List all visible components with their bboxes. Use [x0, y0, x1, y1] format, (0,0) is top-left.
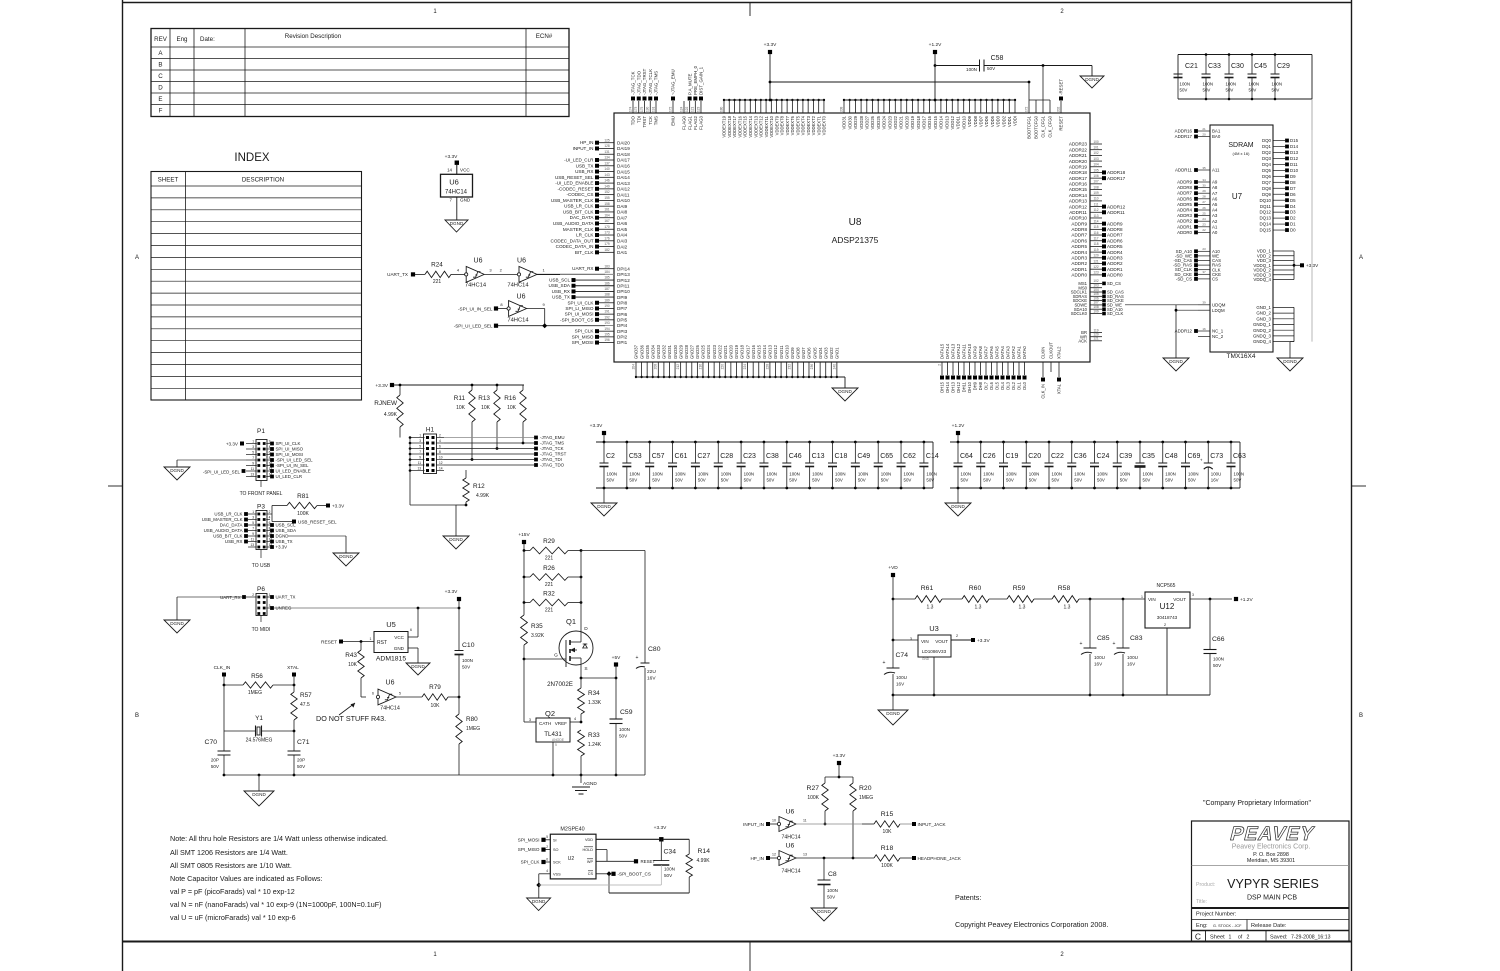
- svg-text:TMX16X4: TMX16X4: [1227, 353, 1256, 360]
- svg-text:221: 221: [545, 608, 554, 614]
- svg-text:122: 122: [685, 106, 689, 112]
- svg-text:DAI11: DAI11: [617, 192, 630, 197]
- svg-text:ADDR4: ADDR4: [1177, 208, 1192, 213]
- svg-text:155: 155: [604, 196, 610, 200]
- P1 right net labels: [270, 441, 313, 479]
- sheet border frame: [122, 2, 1352, 4]
- svg-text:20P: 20P: [297, 758, 305, 763]
- svg-text:1MEG: 1MEG: [466, 726, 480, 732]
- svg-text:R58: R58: [1058, 585, 1071, 592]
- svg-text:DATA0: DATA0: [1022, 345, 1027, 359]
- svg-text:3: 3: [1192, 593, 1194, 597]
- svg-text:VDDEXT4: VDDEXT4: [801, 115, 806, 135]
- svg-text:R60: R60: [969, 585, 982, 592]
- svg-text:10K: 10K: [431, 703, 441, 709]
- ground DGND bank1: [591, 503, 617, 516]
- svg-text:DPI9: DPI9: [617, 295, 628, 300]
- svg-text:GND25: GND25: [701, 344, 706, 359]
- svg-text:DGND: DGND: [532, 899, 546, 904]
- svg-text:USB_RX: USB_RX: [575, 169, 593, 174]
- svg-text:50V: 50V: [619, 734, 628, 739]
- svg-text:C: C: [158, 73, 163, 80]
- svg-text:VDDEXT6: VDDEXT6: [790, 115, 795, 135]
- svg-text:16V: 16V: [647, 676, 656, 682]
- svg-text:R57: R57: [300, 692, 312, 699]
- svg-text:C39: C39: [1119, 453, 1132, 460]
- svg-text:50V: 50V: [1234, 478, 1242, 483]
- svg-text:102: 102: [1093, 151, 1099, 155]
- svg-text:G: G: [554, 653, 558, 659]
- svg-text:GND20: GND20: [729, 344, 734, 359]
- svg-text:ECN#: ECN#: [536, 33, 553, 40]
- svg-text:FLAG0: FLAG0: [682, 115, 687, 129]
- svg-text:ADDR5: ADDR5: [1107, 244, 1123, 249]
- svg-text:ADDR16: ADDR16: [1175, 129, 1193, 134]
- svg-text:GND1: GND1: [835, 347, 840, 359]
- svg-text:CLK_IN: CLK_IN: [1041, 384, 1046, 399]
- svg-text:-SPI_UI_IN_SEL: -SPI_UI_IN_SEL: [458, 306, 493, 311]
- svg-text:SPI_UI_MISO: SPI_UI_MISO: [276, 447, 304, 452]
- svg-text:A3: A3: [1212, 213, 1218, 218]
- capacitor bank C21 C33 C30 C45 C29: [1174, 53, 1313, 130]
- svg-text:C66: C66: [1212, 636, 1225, 643]
- svg-text:DATA13: DATA13: [951, 343, 956, 359]
- svg-text:Y1: Y1: [255, 715, 263, 722]
- U7 right pins GND GNDQ to DGND: [1253, 130, 1312, 358]
- svg-text:USB_AUDIO_DATA: USB_AUDIO_DATA: [553, 221, 595, 226]
- svg-text:1: 1: [252, 510, 254, 514]
- svg-text:196: 196: [604, 338, 610, 342]
- label TO FRONT PANEL: [260, 481, 262, 488]
- svg-text:ACK: ACK: [1078, 338, 1087, 343]
- svg-text:134: 134: [604, 156, 610, 160]
- svg-text:ADDR14: ADDR14: [1069, 193, 1088, 198]
- svg-text:DQ6: DQ6: [1262, 174, 1272, 179]
- svg-text:R11: R11: [454, 395, 466, 402]
- svg-text:+3.3V: +3.3V: [977, 638, 990, 644]
- wire P3 DGND to ground: [288, 535, 346, 537]
- svg-text:ADDR21: ADDR21: [1069, 153, 1088, 158]
- svg-text:R18: R18: [881, 845, 894, 852]
- svg-text:ADDR3: ADDR3: [1071, 256, 1087, 261]
- svg-text:DQ13: DQ13: [1260, 216, 1272, 221]
- svg-text:50V: 50V: [1074, 478, 1082, 483]
- svg-text:H1: H1: [426, 427, 435, 434]
- svg-text:109: 109: [1093, 309, 1099, 313]
- svg-text:C35: C35: [1142, 453, 1155, 460]
- svg-text:124: 124: [679, 106, 683, 112]
- svg-text:47.5: 47.5: [300, 702, 310, 708]
- svg-text:DH13: DH13: [951, 381, 956, 392]
- wire: [485, 273, 520, 275]
- svg-text:3: 3: [529, 718, 531, 722]
- svg-text:DATA3: DATA3: [1006, 345, 1011, 359]
- svg-text:8: 8: [439, 450, 441, 454]
- capacitor C85: [1089, 599, 1091, 648]
- svg-text:-JTAG_TRST: -JTAG_TRST: [642, 68, 647, 95]
- svg-text:XTAL2: XTAL2: [1057, 346, 1062, 359]
- svg-text:DQ9: DQ9: [1262, 192, 1272, 197]
- svg-text:DAI9: DAI9: [617, 204, 628, 209]
- svg-text:16V: 16V: [896, 682, 905, 687]
- svg-text:4: 4: [574, 717, 576, 721]
- svg-text:D1: D1: [1290, 222, 1296, 227]
- svg-text:2: 2: [252, 593, 254, 597]
- svg-text:176: 176: [604, 236, 610, 240]
- svg-text:5: 5: [419, 445, 421, 449]
- svg-text:INPUT_IN: INPUT_IN: [573, 146, 594, 151]
- svg-text:100U: 100U: [1211, 472, 1222, 477]
- svg-text:100K: 100K: [297, 511, 309, 517]
- svg-text:A5: A5: [1212, 202, 1218, 207]
- svg-text:USB_SDA: USB_SDA: [549, 283, 571, 288]
- svg-text:50V: 50V: [1180, 88, 1188, 93]
- svg-text:ADDR19: ADDR19: [1069, 164, 1088, 169]
- svg-text:UART_TX: UART_TX: [387, 272, 408, 277]
- svg-text:U6: U6: [786, 809, 795, 816]
- svg-text:DAI18: DAI18: [617, 152, 630, 157]
- svg-text:2: 2: [546, 845, 548, 849]
- svg-text:VDD17: VDD17: [922, 115, 927, 129]
- svg-text:228: 228: [765, 364, 769, 370]
- svg-text:VYPYR SERIES: VYPYR SERIES: [1227, 877, 1319, 891]
- svg-text:TO USB: TO USB: [252, 563, 271, 569]
- svg-text:ADDR7: ADDR7: [1107, 233, 1123, 238]
- svg-text:DGND: DGND: [1169, 359, 1183, 364]
- P3 right net labels: [270, 523, 296, 550]
- svg-text:2N7002E: 2N7002E: [547, 681, 573, 688]
- svg-text:1.3: 1.3: [1019, 605, 1026, 611]
- svg-text:GND12: GND12: [773, 344, 778, 359]
- capacitor C10: [458, 608, 460, 650]
- svg-text:50V: 50V: [987, 66, 996, 71]
- svg-text:C8: C8: [828, 871, 837, 878]
- svg-text:R81: R81: [297, 493, 309, 500]
- svg-text:ADDR3: ADDR3: [1107, 256, 1123, 261]
- svg-text:CODEC_DATA_IN: CODEC_DATA_IN: [556, 244, 594, 249]
- svg-text:ADDR6: ADDR6: [1177, 196, 1192, 201]
- svg-text:D15: D15: [1290, 138, 1299, 143]
- svg-text:182: 182: [604, 248, 610, 252]
- svg-text:100U: 100U: [1094, 655, 1105, 660]
- svg-text:All SMT 1206 Resistors are 1/4: All SMT 1206 Resistors are 1/4 Watt.: [170, 848, 288, 857]
- svg-text:4.99K: 4.99K: [697, 858, 711, 864]
- svg-text:DATA4: DATA4: [1000, 345, 1005, 359]
- svg-text:146: 146: [604, 179, 610, 183]
- svg-text:All SMT 0805 Resistors are 1/1: All SMT 0805 Resistors are 1/10 Watt.: [170, 861, 292, 870]
- svg-text:DAI13: DAI13: [617, 181, 630, 186]
- svg-text:13: 13: [250, 473, 254, 477]
- svg-text:74HC14: 74HC14: [380, 706, 400, 712]
- svg-text:161: 161: [604, 208, 610, 212]
- svg-text:VOUT: VOUT: [935, 639, 948, 644]
- node UART_TX P6: [270, 595, 274, 599]
- svg-text:A4: A4: [1212, 208, 1218, 213]
- svg-text:C61: C61: [675, 453, 688, 460]
- svg-text:-SPI_UI_IN_SEL: -SPI_UI_IN_SEL: [276, 463, 310, 468]
- resistor R14: [688, 839, 690, 854]
- svg-text:C46: C46: [789, 453, 802, 460]
- U8 bottom pins DATA15-DATA0: [937, 343, 1027, 393]
- svg-text:164: 164: [604, 213, 610, 217]
- svg-text:122: 122: [1093, 265, 1099, 269]
- svg-text:ADDR18: ADDR18: [1107, 170, 1126, 175]
- svg-text:BA0: BA0: [1212, 134, 1221, 139]
- svg-text:1MEG: 1MEG: [859, 795, 873, 801]
- svg-text:190: 190: [604, 304, 610, 308]
- svg-text:C20: C20: [1028, 453, 1041, 460]
- svg-text:GNDQ_3: GNDQ_3: [1253, 334, 1272, 339]
- svg-text:A1: A1: [1212, 224, 1218, 229]
- svg-text:VDD22: VDD22: [893, 115, 898, 129]
- U7 right pins DQ: [1260, 138, 1299, 233]
- svg-text:RESET: RESET: [1059, 116, 1064, 131]
- svg-text:TRST: TRST: [642, 116, 647, 128]
- svg-text:C71: C71: [297, 739, 310, 746]
- svg-text:10K: 10K: [507, 405, 517, 411]
- svg-text:DPI4: DPI4: [617, 323, 628, 328]
- svg-text:A7: A7: [1212, 191, 1218, 196]
- svg-text:GND2: GND2: [829, 347, 834, 359]
- svg-text:100N: 100N: [1143, 472, 1154, 477]
- capacitor C59: [615, 678, 617, 719]
- svg-text:U6: U6: [517, 293, 526, 300]
- svg-text:2: 2: [1164, 623, 1166, 627]
- svg-text:12: 12: [439, 461, 443, 465]
- flash left nets: [518, 837, 551, 864]
- svg-text:VDD3: VDD3: [996, 115, 1001, 127]
- svg-text:118: 118: [1093, 242, 1098, 246]
- svg-text:R12: R12: [473, 483, 485, 490]
- svg-text:~JTAG_EMU: ~JTAG_EMU: [671, 69, 676, 95]
- svg-text:Revision Description: Revision Description: [285, 33, 342, 40]
- svg-text:C23: C23: [743, 453, 756, 460]
- svg-text:232: 232: [788, 364, 792, 370]
- svg-text:-SPI_BOOT_CS: -SPI_BOOT_CS: [560, 317, 593, 322]
- svg-text:A: A: [135, 255, 139, 261]
- svg-text:VDD1: VDD1: [1007, 115, 1012, 127]
- flash HOLD WP wires to RESET: [596, 849, 607, 851]
- svg-text:50V: 50V: [812, 478, 820, 483]
- svg-text:7: 7: [252, 527, 254, 531]
- svg-text:172: 172: [668, 106, 672, 112]
- svg-text:WP: WP: [587, 860, 594, 864]
- svg-text:9: 9: [252, 532, 254, 536]
- svg-text:GND10: GND10: [784, 344, 789, 359]
- flash CS wire to -SPI_BOOT_CS: [596, 873, 609, 875]
- svg-text:ADDR4: ADDR4: [1107, 250, 1123, 255]
- svg-text:22: 22: [1202, 228, 1206, 232]
- svg-text:D14: D14: [1290, 144, 1299, 149]
- svg-text:180: 180: [719, 106, 723, 112]
- svg-text:HP_IN: HP_IN: [750, 856, 764, 861]
- U8 bottom pins CLKIN CLKOUT XTAL: [1042, 362, 1044, 377]
- svg-text:29: 29: [1202, 189, 1206, 193]
- svg-text:SI: SI: [553, 838, 557, 842]
- svg-text:VCC: VCC: [394, 635, 404, 640]
- svg-text:VDD23: VDD23: [887, 115, 892, 129]
- svg-text:VDD11: VDD11: [956, 115, 961, 129]
- svg-text:208: 208: [839, 106, 843, 112]
- svg-text:121: 121: [1093, 337, 1099, 341]
- svg-text:C62: C62: [903, 453, 916, 460]
- wire: [396, 696, 422, 698]
- svg-text:of: of: [1238, 935, 1243, 941]
- svg-text:74HC14: 74HC14: [445, 190, 468, 196]
- svg-text:GND9: GND9: [790, 347, 795, 359]
- svg-text:184: 184: [604, 270, 610, 274]
- svg-text:108: 108: [1093, 185, 1099, 189]
- wire to UART_RX: [537, 273, 605, 275]
- svg-text:TO FRONT PANEL: TO FRONT PANEL: [240, 491, 283, 497]
- svg-text:50V: 50V: [766, 478, 774, 483]
- capacitor bank C2..C14: [596, 435, 939, 503]
- svg-text:100N: 100N: [926, 472, 937, 477]
- svg-text:Peavey Electronics Corp.: Peavey Electronics Corp.: [1232, 844, 1311, 851]
- svg-text:7: 7: [252, 456, 254, 460]
- wire hp row: [796, 857, 874, 859]
- svg-text:D6: D6: [1290, 192, 1296, 197]
- svg-text:SCK: SCK: [553, 861, 561, 865]
- svg-text:GNDQ_4: GNDQ_4: [1253, 339, 1272, 344]
- ground DGND right of U7: [1277, 358, 1303, 371]
- svg-text:28: 28: [1202, 195, 1206, 199]
- svg-text:DQ10: DQ10: [1260, 198, 1272, 203]
- svg-text:101: 101: [1093, 145, 1099, 149]
- svg-text:DQ1: DQ1: [1262, 144, 1272, 149]
- svg-text:C21: C21: [1185, 63, 1198, 70]
- svg-text:193: 193: [604, 321, 610, 325]
- svg-text:DQ11: DQ11: [1260, 204, 1272, 209]
- svg-text:VDDEXT13: VDDEXT13: [753, 115, 758, 137]
- svg-text:1: 1: [1229, 935, 1232, 941]
- svg-text:GND: GND: [394, 646, 405, 651]
- svg-text:ADDR5: ADDR5: [1071, 244, 1087, 249]
- svg-text:+3.3V: +3.3V: [764, 42, 777, 48]
- svg-text:50V: 50V: [629, 478, 637, 483]
- svg-text:DQ7: DQ7: [1262, 180, 1272, 185]
- svg-text:186: 186: [604, 281, 610, 285]
- svg-text:DPI1: DPI1: [617, 340, 628, 345]
- svg-text:AGND: AGND: [583, 781, 597, 787]
- svg-text:GNDQ_2: GNDQ_2: [1253, 328, 1272, 333]
- svg-text:DPI2: DPI2: [617, 335, 628, 340]
- svg-text:BIT_CLK: BIT_CLK: [575, 250, 595, 255]
- svg-text:6: 6: [546, 858, 548, 862]
- svg-text:6: 6: [410, 628, 412, 632]
- svg-text:50V: 50V: [961, 478, 969, 483]
- svg-text:+: +: [883, 660, 886, 666]
- svg-text:5: 5: [399, 692, 401, 696]
- svg-text:U6: U6: [517, 258, 526, 265]
- svg-text:50V: 50V: [1006, 478, 1014, 483]
- revision table: [151, 29, 569, 117]
- svg-text:3: 3: [419, 439, 421, 443]
- svg-text:-UI_LED_CLR: -UI_LED_CLR: [564, 158, 594, 163]
- svg-text:+3.3V: +3.3V: [226, 442, 239, 447]
- wire P1 to ground: [177, 459, 246, 461]
- svg-text:+3.3V: +3.3V: [445, 589, 458, 595]
- svg-text:100N: 100N: [766, 472, 777, 477]
- svg-text:SPI_UI_MOSI: SPI_UI_MOSI: [565, 312, 594, 317]
- svg-text:1.3: 1.3: [975, 605, 982, 611]
- svg-text:50V: 50V: [789, 478, 797, 483]
- svg-text:191: 191: [604, 310, 610, 314]
- svg-text:GND: GND: [460, 198, 471, 203]
- svg-text:-JTAG_TDI: -JTAG_TDI: [540, 457, 562, 462]
- svg-text:VDD28: VDD28: [859, 115, 864, 129]
- svg-text:GND21: GND21: [723, 344, 728, 359]
- svg-text:USB_TX: USB_TX: [276, 539, 293, 544]
- svg-text:50V: 50V: [827, 895, 836, 900]
- svg-text:VDD29: VDD29: [853, 115, 858, 129]
- connector P1: [246, 428, 272, 481]
- svg-text:C69: C69: [1188, 453, 1201, 460]
- svg-text:4.99K: 4.99K: [476, 493, 490, 499]
- svg-text:+: +: [636, 655, 639, 661]
- svg-text:ADDR8: ADDR8: [1177, 185, 1192, 190]
- node INPUT_JACK: [912, 822, 916, 826]
- svg-text:128: 128: [604, 144, 610, 148]
- U8 top pins JTAG: [628, 68, 658, 127]
- svg-text:143: 143: [604, 173, 610, 177]
- svg-text:VDD27: VDD27: [865, 115, 870, 129]
- svg-text:D: D: [584, 626, 588, 632]
- svg-text:VCC: VCC: [460, 168, 470, 173]
- svg-text:ADDR5: ADDR5: [1177, 202, 1192, 207]
- svg-text:GND33: GND33: [656, 344, 661, 359]
- svg-text:VDDEXT2: VDDEXT2: [811, 115, 816, 135]
- svg-text:100N: 100N: [827, 888, 838, 893]
- svg-text:100N: 100N: [1249, 82, 1260, 87]
- ground AGND: [572, 786, 590, 788]
- svg-text:D10: D10: [1290, 168, 1299, 173]
- svg-text:204: 204: [631, 364, 635, 370]
- svg-text:D: D: [158, 85, 163, 92]
- node HEADPHONE_JACK: [912, 856, 916, 860]
- svg-text:A9: A9: [1212, 180, 1218, 185]
- svg-text:-CODEC_RESET: -CODEC_RESET: [558, 186, 594, 191]
- svg-text:ADDR0: ADDR0: [1107, 273, 1123, 278]
- svg-text:DGND: DGND: [951, 504, 965, 509]
- svg-text:185: 185: [604, 276, 610, 280]
- svg-text:DIST_GAIN_1: DIST_GAIN_1: [699, 66, 704, 95]
- svg-text:R34: R34: [588, 690, 600, 697]
- ground DGND crystal: [244, 791, 274, 806]
- svg-text:192: 192: [604, 315, 610, 319]
- svg-text:R29: R29: [543, 538, 555, 545]
- svg-text:158: 158: [604, 202, 610, 206]
- svg-text:GND37: GND37: [634, 344, 639, 359]
- svg-text:ADDR8: ADDR8: [1107, 227, 1123, 232]
- svg-text:R20: R20: [859, 785, 872, 792]
- svg-text:DL6: DL6: [989, 381, 994, 389]
- svg-text:GND29: GND29: [678, 344, 683, 359]
- svg-text:val U = uF (microFarads) val *: val U = uF (microFarads) val * 10 exp-6: [170, 913, 296, 922]
- svg-text:50V: 50V: [1165, 478, 1173, 483]
- svg-text:7: 7: [419, 450, 421, 454]
- svg-text:21: 21: [1202, 127, 1206, 131]
- svg-text:GND34: GND34: [650, 344, 655, 359]
- svg-text:DPI5: DPI5: [617, 318, 628, 323]
- ground DGND input block: [811, 908, 837, 921]
- svg-text:Copyright Peavey Electronics C: Copyright Peavey Electronics Corporation…: [955, 920, 1108, 929]
- U8 top pins BOOTCFG CLKCFG: [1024, 66, 1052, 139]
- svg-text:S: S: [584, 666, 587, 672]
- svg-text:A0: A0: [1212, 230, 1218, 235]
- svg-text:4: 4: [439, 439, 441, 443]
- svg-text:VDDEXT3: VDDEXT3: [806, 115, 811, 135]
